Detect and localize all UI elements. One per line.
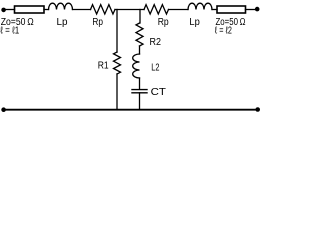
svg-text:CT: CT bbox=[151, 87, 166, 98]
svg-text:Rp: Rp bbox=[158, 17, 169, 28]
svg-text:Rp: Rp bbox=[92, 17, 103, 28]
svg-text:R1: R1 bbox=[98, 61, 109, 72]
svg-text:ℓ = ℓ1: ℓ = ℓ1 bbox=[0, 25, 19, 36]
svg-text:L2: L2 bbox=[151, 63, 160, 74]
svg-text:Lp: Lp bbox=[189, 17, 200, 28]
svg-text:ℓ = ℓ2: ℓ = ℓ2 bbox=[215, 25, 232, 36]
svg-text:Lp: Lp bbox=[57, 17, 68, 28]
svg-text:R2: R2 bbox=[150, 37, 162, 48]
